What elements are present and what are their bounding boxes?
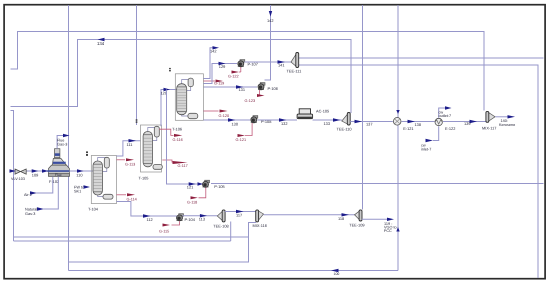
exchanger E-122	[435, 118, 442, 125]
energy G-118	[199, 188, 206, 198]
pump P-105	[203, 180, 210, 187]
svg-text:131: 131	[239, 87, 246, 92]
tee TEE-111	[291, 53, 299, 68]
svg-text:T-106: T-106	[172, 126, 182, 131]
svg-text:Flue: Flue	[55, 173, 62, 177]
tiny mark above T-105	[136, 119, 138, 120]
energy G-116	[159, 129, 174, 135]
svg-text:E-122: E-122	[445, 126, 455, 131]
wire T-105 overhead stream 120	[161, 90, 177, 127]
arrow Air-2	[30, 191, 37, 194]
svg-text:130: 130	[232, 122, 239, 127]
svg-text:110: 110	[76, 173, 83, 178]
svg-text:G-116: G-116	[173, 138, 183, 142]
wire: stream 134 TEE-110 top branch to left border	[11, 40, 352, 114]
svg-text:T-105: T-105	[139, 175, 149, 180]
svg-text:G-120: G-120	[219, 114, 230, 118]
wire stream 131 to P-106	[204, 86, 258, 88]
svg-text:111: 111	[127, 142, 133, 147]
svg-text:112: 112	[147, 217, 153, 222]
arrow stream 119 VGO	[387, 218, 394, 221]
svg-text:142: 142	[210, 48, 217, 53]
wire: stream 142 from top border to P-106	[265, 5, 271, 80]
svg-text:G-121: G-121	[236, 138, 247, 142]
svg-text:SK1: SK1	[74, 190, 81, 194]
wire furnace to T-104 stream 110	[69, 170, 93, 172]
column T-106 internal piping	[182, 80, 191, 84]
wire: feed from top border into T-105 box	[136, 5, 138, 125]
svg-text:117: 117	[236, 213, 242, 218]
tiny mark above T-104	[86, 151, 88, 153]
wire T-105 bottoms stream 121	[167, 90, 204, 185]
wire stream 137 TEE-110 to E-121	[350, 121, 393, 123]
wire: left rail feed to VLV-103 and bottom pair	[11, 111, 14, 242]
arrow stream 100 bottom	[331, 269, 339, 272]
wire P-108 to AC-105	[258, 119, 298, 121]
svg-text:G-113: G-113	[125, 163, 135, 167]
wire cw outlet-7	[439, 108, 445, 118]
wire: vertical x397.5 top border to bottom through E-121	[397, 5, 399, 271]
wire Air-2 feed	[37, 177, 53, 194]
arrow stream 141	[278, 60, 286, 63]
svg-text:E-121: E-121	[403, 126, 413, 131]
aircooler AC-105	[297, 109, 313, 119]
svg-text:inlet-7: inlet-7	[421, 147, 431, 151]
arrow into VLV-103	[10, 169, 16, 172]
arrow stream 129	[219, 62, 226, 65]
energy G-119	[204, 80, 216, 82]
arrow stream 142	[213, 46, 220, 49]
column T-105	[143, 132, 152, 167]
svg-text:142: 142	[267, 18, 274, 23]
column T-104	[93, 161, 103, 195]
svg-text:P-105: P-105	[214, 184, 224, 189]
energy G-120	[204, 110, 219, 112]
energy G-123	[259, 90, 261, 96]
energy G-117	[162, 160, 172, 163]
svg-text:TEE-108: TEE-108	[213, 223, 228, 228]
furnace F-102	[47, 149, 69, 177]
svg-text:121: 121	[187, 185, 194, 190]
svg-text:P-104: P-104	[185, 217, 196, 222]
wire VLV to furnace	[27, 170, 48, 172]
wire Natural Gas-3 feed	[44, 177, 59, 210]
svg-text:G-119: G-119	[214, 82, 224, 86]
wire: bottom pair lower	[14, 240, 231, 242]
svg-text:134: 134	[97, 41, 105, 46]
arrow stream 132	[279, 118, 287, 121]
wire stream 139 E-122 to MIX-117	[443, 121, 487, 123]
svg-text:109: 109	[32, 172, 39, 177]
wire stream 141 P-107 to TEE-111	[245, 61, 292, 63]
arrow stream 131	[236, 85, 244, 88]
arrow FW into T-104	[84, 185, 91, 188]
arrow Flue Gas-3	[63, 134, 70, 137]
wire stream 118 MIX-116 to TEE-109	[264, 214, 355, 216]
arrow stream 137	[355, 120, 363, 123]
arrow up on x397.5 near FCC	[396, 227, 399, 232]
wire stream 117 TEE-108 to MIX-116	[225, 211, 256, 213]
svg-text:100: 100	[334, 272, 340, 276]
svg-text:VLV-103: VLV-103	[11, 177, 25, 181]
arrow stream 117	[236, 210, 244, 213]
arrow stream 134	[98, 38, 105, 41]
wire: bottom line y270 to E-121 utility	[69, 270, 399, 272]
column T-104 internal piping	[98, 158, 107, 162]
svg-text:G-118: G-118	[187, 201, 197, 205]
condenser drum T-106	[188, 78, 193, 87]
svg-text:Air-2: Air-2	[24, 193, 32, 197]
svg-text:FCC: FCC	[384, 229, 392, 233]
wire stream 113 P-104 to TEE-108	[183, 215, 218, 217]
svg-text:138: 138	[415, 122, 422, 127]
energy G-115	[172, 221, 180, 225]
svg-text:129: 129	[219, 64, 226, 69]
pump P-104	[177, 214, 184, 221]
condenser drum T-104	[104, 157, 109, 168]
exchanger E-121	[393, 118, 401, 126]
arrow stream 138	[408, 120, 416, 123]
wire T-104 overhead stream 111	[117, 141, 141, 156]
pump P-107	[238, 60, 245, 67]
svg-text:G-123: G-123	[245, 99, 256, 103]
wire: vertical x68 from top border down	[68, 5, 70, 271]
wire T-104 bottoms to P-104	[117, 202, 178, 217]
svg-text:Gas-3: Gas-3	[25, 212, 35, 216]
wire P-105 discharge to right border	[211, 183, 544, 185]
reboiler T-106	[188, 113, 198, 118]
arrow stream 120	[164, 88, 171, 91]
svg-text:141: 141	[278, 63, 285, 68]
tee TEE-109	[355, 210, 363, 221]
wire: TEE-108 down branch	[230, 222, 232, 242]
wire stream 138 E-121 to E-122	[402, 121, 435, 123]
svg-text:TEE-111: TEE-111	[287, 69, 302, 74]
arrow stream 121	[189, 182, 196, 185]
arrow stream 110	[77, 169, 84, 172]
arrow stream 133	[333, 118, 341, 121]
column T-106	[177, 84, 187, 115]
tee TEE-108	[217, 210, 225, 222]
svg-text:118: 118	[338, 216, 344, 221]
energy G-113	[117, 159, 126, 161]
arrow stream 142 down	[269, 11, 272, 17]
wire: H1 recycle from left border to MIX-117 top	[11, 32, 485, 111]
condenser drum T-105	[154, 126, 159, 137]
valve VLV-103	[15, 169, 26, 174]
arrow stream 130	[228, 118, 236, 121]
svg-text:Kerosene: Kerosene	[499, 123, 515, 127]
flue gas stack line	[57, 136, 63, 149]
svg-text:TEE-109: TEE-109	[349, 222, 364, 227]
wire: TEE-111 lower outlet down right side	[298, 65, 538, 278]
svg-text:MIX-117: MIX-117	[482, 125, 496, 130]
svg-text:T-104: T-104	[88, 207, 99, 212]
arrow stream 139	[470, 120, 478, 123]
tee TEE-110	[342, 113, 350, 126]
wire: bottom pair upper	[14, 236, 249, 238]
svg-text:Gas-3: Gas-3	[57, 143, 67, 147]
wire: branch to MIX-116 bottom inlet	[69, 223, 257, 263]
svg-text:G-115: G-115	[159, 230, 169, 234]
arrow stream 112	[143, 214, 151, 217]
column T-105 box	[141, 125, 162, 172]
mixer MIX-116	[256, 210, 264, 222]
svg-text:113: 113	[199, 217, 205, 222]
svg-text:G-114: G-114	[127, 198, 137, 202]
arrow stream 113	[200, 214, 207, 217]
wire MIX-117 product	[495, 116, 507, 118]
wire: VLV feed stub	[14, 170, 16, 172]
pump P-108	[251, 116, 258, 123]
arrow stream 109	[32, 169, 39, 172]
svg-text:P-106: P-106	[268, 86, 278, 91]
column T-104 box	[91, 156, 116, 204]
arrow stream 140 Kerosene	[508, 115, 516, 118]
svg-text:137: 137	[366, 122, 373, 127]
svg-text:133: 133	[324, 121, 331, 126]
arrow Natural Gas-3	[37, 207, 44, 210]
column T-106 box	[175, 74, 203, 121]
wire stream 142 T-106 vent	[204, 48, 213, 79]
wire AC-105 to TEE-110 stream 133	[313, 119, 342, 121]
column T-105 internal piping	[148, 128, 157, 132]
svg-text:139: 139	[464, 121, 471, 126]
wire TEE-109 product out	[362, 218, 387, 220]
svg-text:AC-105: AC-105	[316, 108, 329, 113]
svg-text:G-122: G-122	[228, 74, 239, 78]
wire cw inlet-7	[433, 126, 439, 140]
svg-text:TEE-110: TEE-110	[337, 126, 353, 131]
reboiler T-104	[103, 194, 113, 199]
energy G-114	[117, 194, 127, 196]
svg-text:132: 132	[281, 121, 288, 126]
svg-text:outlet-7: outlet-7	[439, 114, 452, 118]
wire stream 129 to P-107	[204, 64, 238, 84]
pump P-106	[258, 83, 265, 90]
arrow stream 111	[129, 139, 137, 142]
mixer MIX-117	[486, 111, 495, 122]
tiny mark above T-106	[169, 68, 171, 69]
svg-text:F-102: F-102	[49, 179, 59, 184]
energy G-121	[245, 123, 252, 136]
svg-text:MIX-116: MIX-116	[253, 223, 267, 228]
wire: vertical x362 top border to TEE-109	[362, 5, 364, 210]
wire: TEE-111 upper outlet to right border	[298, 57, 543, 59]
arrow stream 118	[342, 213, 350, 216]
arrow down into E-121 utility	[396, 110, 399, 114]
svg-text:G-117: G-117	[178, 164, 188, 168]
wire stream 130 to P-108	[204, 119, 251, 121]
energy G-122	[240, 67, 242, 72]
reboiler T-105	[153, 165, 162, 170]
